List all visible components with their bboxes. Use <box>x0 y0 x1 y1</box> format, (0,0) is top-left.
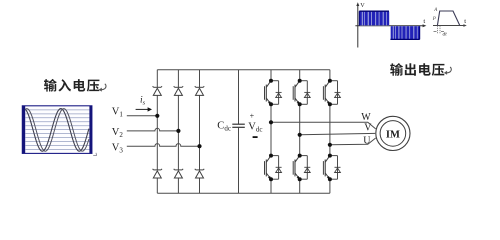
wire: inverter leg B <box>299 70 301 194</box>
wire: DC-link capacitor leg (top) <box>238 70 240 124</box>
capacitor C_dc plates <box>232 124 245 127</box>
wire: DC-link capacitor leg (bottom) <box>238 128 240 194</box>
PWM negative half-cycle pulse group <box>390 26 419 39</box>
svg-text:dt: dt <box>443 32 448 38</box>
diode D5 (rectifier bottom, leg 2) <box>174 169 183 178</box>
label: input voltage caption (shu ru dian ya) <box>44 79 99 92</box>
junction: W tap on leg A <box>269 120 273 124</box>
wire: output phase W from leg A <box>271 122 376 129</box>
wire: rectifier leg 1 <box>156 70 158 194</box>
transistor Q6 with freewheel diode (bottom, leg) <box>322 154 341 182</box>
input sine wave phase A <box>25 109 89 152</box>
wire: phase input V1 line <box>127 115 158 117</box>
wire: phase input V3 line (hops legs 1 and 2) <box>127 144 200 147</box>
label: output voltage caption (shu chu dian ya) <box>390 63 444 76</box>
svg-text:V: V <box>360 2 365 9</box>
wire: positive DC bus (top rail) <box>157 69 330 71</box>
PWM positive half-cycle pulse group <box>359 11 389 25</box>
junction: V3 to leg 3 <box>197 144 201 148</box>
svg-text:+: + <box>250 111 255 120</box>
svg-text:t: t <box>464 18 466 25</box>
junction: V1 to leg 1 <box>155 114 159 118</box>
junction: V2 to leg 2 <box>176 129 180 133</box>
wire: negative DC bus (bottom rail) <box>157 192 330 194</box>
transistor Q2 with freewheel diode (top, leg) <box>292 79 311 107</box>
input sine wave phase B <box>25 109 89 152</box>
PWM output waveform: vertical axis <box>357 5 359 48</box>
PWM output waveform: horizontal axis <box>355 25 424 27</box>
motor IM inner circle <box>380 121 406 147</box>
single voltage pulse trapezoid <box>437 11 459 26</box>
junction: V tap on leg B <box>298 133 302 137</box>
diode D4 (rectifier bottom, leg 1) <box>153 169 162 178</box>
wire: rectifier leg 3 <box>199 70 201 194</box>
small axis tick at box lower-right <box>93 153 96 156</box>
svg-text:IM: IM <box>386 129 400 140</box>
svg-text:t: t <box>423 18 425 25</box>
wire: phase input V2 line (hops leg 1) <box>127 128 179 131</box>
wire: rectifier leg 2 <box>177 70 179 194</box>
diode D6 (rectifier bottom, leg 3) <box>195 169 204 178</box>
diode D2 (rectifier top, leg 2) <box>174 86 183 95</box>
transistor Q5 with freewheel diode (bottom, leg) <box>292 154 311 182</box>
transistor Q4 with freewheel diode (bottom, leg) <box>263 154 282 182</box>
svg-text:P: P <box>432 17 436 22</box>
transistor Q1 with freewheel diode (top, leg) <box>263 79 282 107</box>
label: minus sign of V_dc <box>253 136 258 138</box>
wire: inverter leg C <box>329 70 331 194</box>
arrow: input current direction <box>136 107 152 111</box>
transistor Q3 with freewheel diode (top, leg) <box>322 79 341 107</box>
wire: output phase U from leg C <box>330 138 376 145</box>
wire: inverter leg A <box>270 70 272 194</box>
rise-time dashed ticks below pulse <box>437 26 440 35</box>
motor IM outer circle <box>376 116 410 150</box>
return-arrow mark after output caption <box>444 67 451 75</box>
diode D1 (rectifier top, leg 1) <box>153 86 162 95</box>
wire: output phase V from leg B <box>300 133 376 134</box>
single-pulse detail: horizontal axis <box>433 25 465 27</box>
svg-text:V: V <box>364 122 372 133</box>
junction: U tap on leg C <box>328 143 332 147</box>
diode D3 (rectifier top, leg 3) <box>195 86 204 95</box>
input sine waveform box <box>22 106 92 154</box>
return-arrow mark after input caption <box>99 84 106 92</box>
svg-text:U: U <box>363 135 371 146</box>
